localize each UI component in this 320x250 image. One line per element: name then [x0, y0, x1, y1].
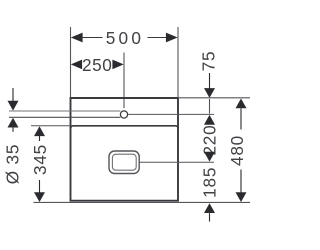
dimension 75 mid segment [209, 99, 211, 114]
dimension 480 up arrow [236, 99, 247, 109]
dimension D35 down arrow [12, 88, 14, 102]
dimension 220 up arrow [204, 115, 215, 125]
dimension 185 up arrow below reference line [204, 203, 215, 213]
svg-text:250: 250 [82, 55, 112, 75]
basin outer rectangle [71, 98, 179, 201]
dimension D35 up arrow [8, 118, 19, 128]
svg-text:185: 185 [199, 167, 219, 198]
basin deck front edge line [71, 126, 178, 129]
drain leader line [140, 161, 214, 163]
faucet center line right [128, 113, 214, 115]
drain inner rounded rect [112, 154, 136, 170]
svg-text:220: 220 [200, 124, 220, 155]
dimension 250 arrow left [71, 60, 82, 70]
faucet hole top tangent line [9, 110, 120, 112]
svg-text:345: 345 [30, 144, 50, 175]
dimension 500 arrow left [71, 33, 83, 43]
svg-text:75: 75 [198, 51, 218, 72]
dimension 500 line segments [81, 37, 103, 39]
extension line left (x=70.5) [70, 27, 72, 98]
bottom reference line [34, 201, 251, 203]
svg-text:500: 500 [106, 28, 145, 48]
dimension 345 up arrow [34, 126, 45, 136]
dimension 480 down arrow [240, 170, 242, 193]
svg-text:Ø 35: Ø 35 [3, 144, 23, 184]
top reference extension line right [178, 97, 250, 99]
dimension 500 arrow right [166, 33, 178, 43]
extension line right (x=178) [177, 27, 179, 98]
dimension 220 down arrow [204, 152, 215, 162]
faucet hole circle [120, 111, 127, 118]
dimension 345 down arrow [39, 180, 41, 193]
drain outer rounded rect [109, 151, 139, 174]
dimension 75 down arrow [209, 73, 211, 89]
dimension 250 arrow right [112, 60, 123, 70]
deck line left extension [31, 125, 71, 127]
faucet hole bottom tangent line [9, 116, 120, 118]
extension line middle (x=124) [123, 53, 125, 109]
svg-text:480: 480 [227, 135, 247, 166]
